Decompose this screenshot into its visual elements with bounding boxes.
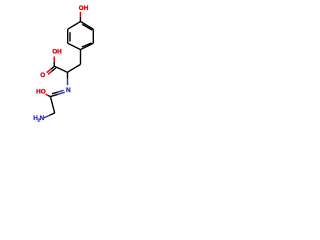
double bond C=N line1 blue half <box>58 92 65 94</box>
benzene ring edge C6-C1 <box>68 22 81 30</box>
bond HO-iminolC (red half) <box>45 94 48 95</box>
bond alphaC-N (black half) <box>67 72 69 79</box>
double bond C=O line2 red half <box>48 71 52 74</box>
svg-text:H2N: H2N <box>33 115 44 122</box>
bond carboxylC-OH (black half) <box>53 61 55 66</box>
bond alphaC-N (blue half) <box>67 79 69 85</box>
bond CH2gly-NH2 (black half) <box>49 113 54 115</box>
atom label O1 phenol OH <box>0 0 1 1</box>
bond phenol O-C1 (red half) <box>79 12 81 17</box>
double bond C=O line2 black half <box>52 68 56 71</box>
bond alphaC-carboxylC <box>54 66 67 72</box>
svg-text:OH: OH <box>52 48 62 55</box>
double bond C=O line1 black half <box>51 66 55 69</box>
benzene ring edge C2-C3 <box>92 29 94 43</box>
bond CH2-alphaC <box>67 64 80 72</box>
benzene ring edge C1-C2 <box>81 22 94 30</box>
double bond C=N line2 blue half <box>58 90 64 92</box>
benzene ring edge C3-C4 <box>81 43 94 49</box>
benzene ring edge C5-C6 <box>67 29 69 43</box>
bond iminolC-CH2gly <box>50 97 54 113</box>
benzene ring inner double line C3-C4 <box>82 43 92 47</box>
benzene ring inner double line C5-C6 <box>69 32 71 41</box>
benzene ring inner double line C1-C2 <box>82 24 92 30</box>
double bond C=N line2 black half <box>52 92 58 94</box>
double bond C=O line1 red half <box>47 70 51 73</box>
bond carboxylC-OH (red half) <box>53 56 55 61</box>
double bond C=N line1 black half <box>50 94 57 96</box>
benzene ring edge C4-C5 <box>68 43 81 49</box>
svg-text:OH: OH <box>79 5 89 12</box>
bond CH2gly-NH2 (blue half) <box>44 115 49 117</box>
bond HO-iminolC (black half) <box>48 95 51 96</box>
bond phenol O-C1 (black half) <box>79 17 81 22</box>
svg-text:N: N <box>66 87 71 94</box>
svg-text:HO: HO <box>36 88 46 95</box>
svg-text:O: O <box>40 72 45 79</box>
bond C4-CH2 benzylic <box>80 50 82 65</box>
